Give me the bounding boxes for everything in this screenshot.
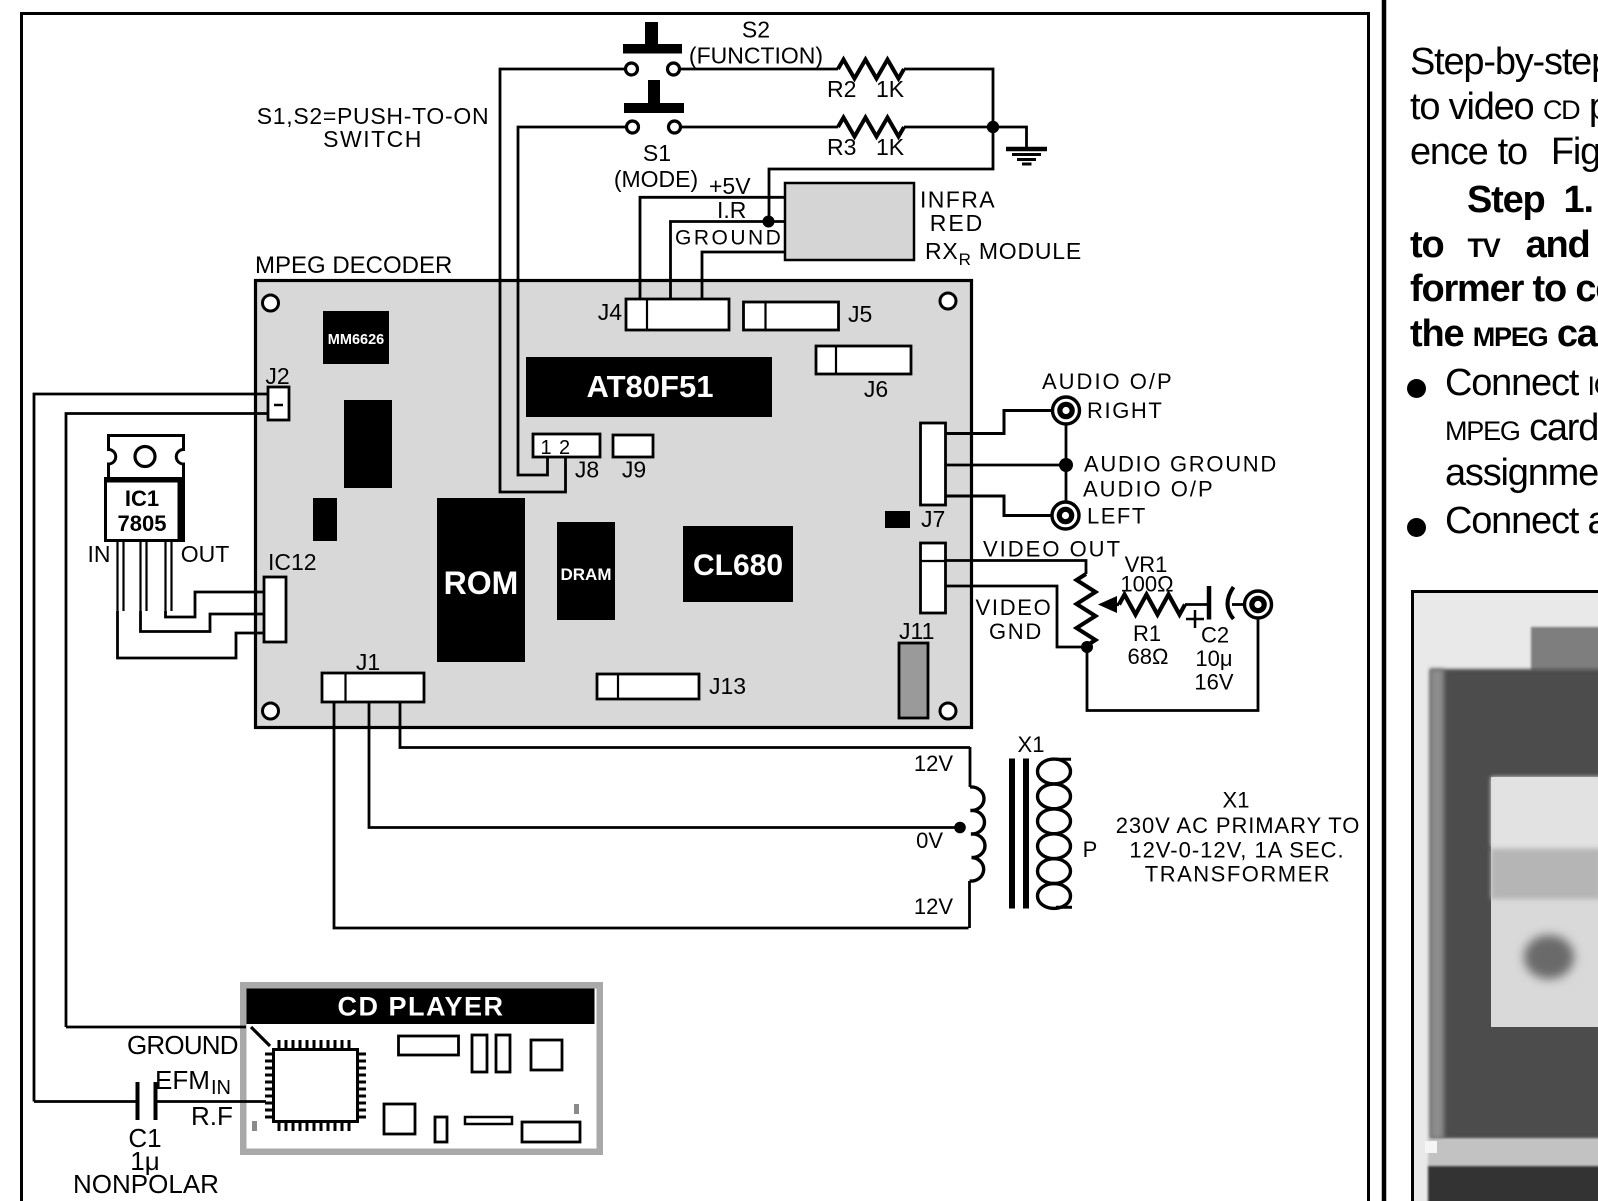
CD player board frame bbox=[240, 982, 603, 1155]
CD board component rect 1 bbox=[399, 1036, 459, 1055]
label X1 transformer description bbox=[1116, 788, 1360, 887]
RCA jack audio left bbox=[1052, 502, 1079, 529]
wire J7 pin3 to left audio jack bbox=[946, 496, 1053, 516]
transformer X1 primary winding bbox=[1038, 759, 1073, 908]
wire J7 pin2 to audio ground node bbox=[946, 464, 1067, 467]
connector J9 bbox=[613, 435, 653, 457]
label AUDIO O/P (right) bbox=[1042, 369, 1174, 394]
potentiometer VR1 bbox=[1077, 574, 1096, 646]
label J8 bbox=[575, 457, 599, 483]
CD board component rect 8 bbox=[522, 1122, 580, 1142]
board mounting hole bottom-right bbox=[940, 703, 956, 719]
wire +5V module to J4 pin1 bbox=[640, 197, 785, 299]
CD board component rect 4 bbox=[531, 1040, 562, 1070]
label R1 68ohm bbox=[1128, 621, 1169, 669]
IC1 leg middle bbox=[141, 541, 147, 611]
connector J13 bbox=[597, 674, 699, 699]
label IC12 bbox=[268, 549, 317, 575]
VR1 wiper arrow bbox=[1098, 596, 1119, 613]
label GROUND (CD player) bbox=[127, 1030, 238, 1060]
CD board component rect 2 bbox=[472, 1035, 487, 1072]
label J4 bbox=[598, 299, 623, 325]
label GROUND (IR module) bbox=[675, 227, 783, 250]
label P bbox=[1083, 837, 1098, 862]
MPEG decoder board bbox=[256, 281, 972, 728]
wire to C1 left plate bbox=[34, 1100, 136, 1103]
label AUDIO O/P (left) bbox=[1083, 477, 1215, 502]
switch S2 (FUNCTION) plunger bbox=[623, 22, 682, 54]
chip ROM bbox=[437, 498, 525, 662]
wire J1 pin middle to transformer 0V bbox=[369, 702, 962, 828]
connector J8 with pins 1 2 bbox=[533, 434, 600, 459]
connector J4 bbox=[626, 299, 729, 330]
unlabeled small IC left bbox=[313, 498, 337, 541]
wire junction to ground bbox=[993, 127, 1027, 147]
RCA jack video bbox=[1245, 591, 1272, 618]
label OUT bbox=[181, 541, 230, 567]
CD board component rect 3 bbox=[496, 1035, 510, 1072]
label VIDEO OUT bbox=[983, 537, 1122, 562]
unlabeled IC left bbox=[344, 400, 392, 488]
label AUDIO GROUND bbox=[1084, 452, 1278, 477]
connector J7 bbox=[921, 423, 946, 505]
wire I.R module to J4 pin2 bbox=[671, 222, 786, 300]
wire audio ground bus bbox=[1065, 424, 1068, 502]
label J11 bbox=[899, 618, 934, 644]
transformer X1 core bbox=[1009, 759, 1029, 909]
wire S1 right terminal to R3 bbox=[681, 126, 839, 129]
wire S2 left terminal to J8 pin2 bbox=[500, 69, 626, 492]
board mounting hole top-right bbox=[940, 293, 956, 309]
J7 locator block bbox=[885, 511, 910, 528]
wire C2 to video jack bbox=[1232, 603, 1244, 606]
label 0V bbox=[916, 828, 943, 853]
wire video ground return loop bbox=[1087, 618, 1258, 711]
wire J1 pin left to transformer 12V bottom bbox=[334, 702, 969, 928]
wire IC1 IN leg to IC12 pin3 bbox=[118, 611, 265, 658]
connector J1 bbox=[322, 673, 424, 702]
label J2 bbox=[265, 363, 289, 389]
label J5 bbox=[848, 301, 872, 327]
resistor R1 bbox=[1119, 595, 1185, 615]
connector J6 bbox=[816, 346, 911, 374]
chip AT80F51 bbox=[526, 357, 772, 417]
chip CL680 bbox=[683, 526, 793, 602]
label INFRA RED RXR MODULE bbox=[920, 187, 1082, 270]
wire video gnd to VR1 bottom node bbox=[946, 586, 1088, 647]
photo of TV set bbox=[1414, 593, 1598, 1201]
chip MM6626 bbox=[323, 311, 389, 364]
label S1 (MODE) bbox=[614, 140, 698, 192]
switch S1 contact circles bbox=[627, 121, 681, 133]
wire J1 pin right to transformer 12V top bbox=[400, 702, 970, 748]
pointer line to CD chip bbox=[251, 1027, 270, 1046]
label C2 10u 16V bbox=[1194, 623, 1233, 695]
wire C1 to CD player R.F input bbox=[157, 1100, 266, 1103]
junction node I.R line bbox=[763, 216, 775, 228]
label J6 bbox=[864, 376, 888, 402]
column divider rule bbox=[1382, 0, 1387, 1201]
wire IC1 OUT leg to IC12 pin1 bbox=[166, 592, 265, 617]
junction node audio ground bbox=[1059, 458, 1073, 472]
CD board component bar 7 bbox=[465, 1117, 512, 1124]
wire R1 to C2 bbox=[1185, 603, 1207, 606]
label LEFT bbox=[1087, 504, 1147, 529]
label RIGHT bbox=[1087, 398, 1163, 423]
connector J2 bbox=[268, 387, 289, 420]
label X1 (above transformer) bbox=[1018, 732, 1045, 757]
wire R2 to junction node bbox=[769, 69, 993, 216]
label MPEG DECODER bbox=[255, 252, 452, 279]
label VR1 100ohm bbox=[1120, 552, 1173, 597]
resistor R2 bbox=[838, 60, 904, 79]
wire J7 pin1 to right audio jack bbox=[946, 411, 1053, 434]
CD board component rect 5 bbox=[384, 1104, 415, 1134]
CD player title banner bbox=[247, 989, 595, 1025]
switch S2 contact circles bbox=[626, 63, 680, 75]
label EFM IN bbox=[155, 1065, 231, 1099]
label I.R bbox=[717, 197, 746, 223]
regulator IC1 7805 body bbox=[106, 477, 185, 541]
RCA jack audio right bbox=[1053, 397, 1080, 424]
label R2 1K bbox=[827, 76, 905, 102]
wire J2 bottom to CD player ground (left vertical) bbox=[66, 414, 268, 1028]
ground bbox=[1006, 149, 1047, 164]
label R.F bbox=[191, 1101, 233, 1131]
label J13 bbox=[709, 673, 746, 699]
CD board fiducial mark 1 bbox=[252, 1121, 257, 1131]
transformer X1 secondary winding bbox=[970, 747, 985, 928]
junction node VR1 bottom bbox=[1081, 641, 1093, 653]
connector IC12 bbox=[264, 577, 286, 642]
label S2 (FUNCTION) bbox=[689, 17, 823, 69]
wire S2 right terminal to R2 bbox=[680, 68, 839, 71]
infra red RX module body bbox=[785, 183, 914, 260]
board mounting hole bottom-left bbox=[263, 703, 279, 719]
junction node 0V tap bbox=[954, 822, 966, 834]
CD player QFP chip bbox=[265, 1040, 366, 1131]
switch S1 (MODE) plunger bbox=[624, 80, 684, 113]
label J7 bbox=[921, 506, 945, 532]
CD board component rect 6 bbox=[435, 1117, 447, 1142]
wire ground module to J4 pin3 bbox=[702, 252, 785, 299]
connector video out bbox=[921, 543, 946, 613]
label R3 1K bbox=[827, 134, 905, 160]
board mounting hole top-left bbox=[263, 295, 279, 311]
wire ground to CD player bbox=[66, 1026, 246, 1029]
capacitor C2 bbox=[1209, 586, 1234, 620]
label C1 1u NONPOLAR bbox=[73, 1123, 219, 1199]
resistor R3 bbox=[838, 118, 904, 137]
regulator IC1 7805 tab bbox=[109, 436, 184, 479]
wire J2 top to CD player R.F via C1 (left vertical) bbox=[34, 394, 268, 1102]
IC1 leg OUT bbox=[166, 541, 172, 611]
wire S1 left terminal to J8 pin1 bbox=[518, 127, 627, 475]
capacitor C2 plus sign bbox=[1186, 610, 1204, 628]
connector J5 bbox=[744, 302, 839, 330]
chip DRAM bbox=[557, 522, 615, 620]
label J1 bbox=[356, 649, 380, 675]
label J9 bbox=[622, 457, 646, 483]
label S1,S2=PUSH-TO-ON SWITCH bbox=[257, 103, 490, 152]
label 12V top bbox=[914, 751, 953, 776]
capacitor C1 bbox=[138, 1082, 156, 1120]
CD board fiducial mark 2 bbox=[574, 1104, 579, 1114]
wire R3 to junction node bbox=[904, 126, 993, 129]
label IN bbox=[88, 541, 111, 567]
connector J11 bbox=[899, 643, 928, 718]
junction node R2/R3 bbox=[987, 121, 999, 133]
label VIDEO GND bbox=[976, 595, 1053, 644]
label +5V bbox=[709, 173, 751, 199]
label 12V bottom bbox=[914, 894, 953, 919]
wire video out to VR1 top bbox=[946, 561, 1087, 575]
IC1 leg IN bbox=[118, 541, 124, 611]
wire IC1 middle leg to IC12 pin2 bbox=[141, 611, 265, 632]
